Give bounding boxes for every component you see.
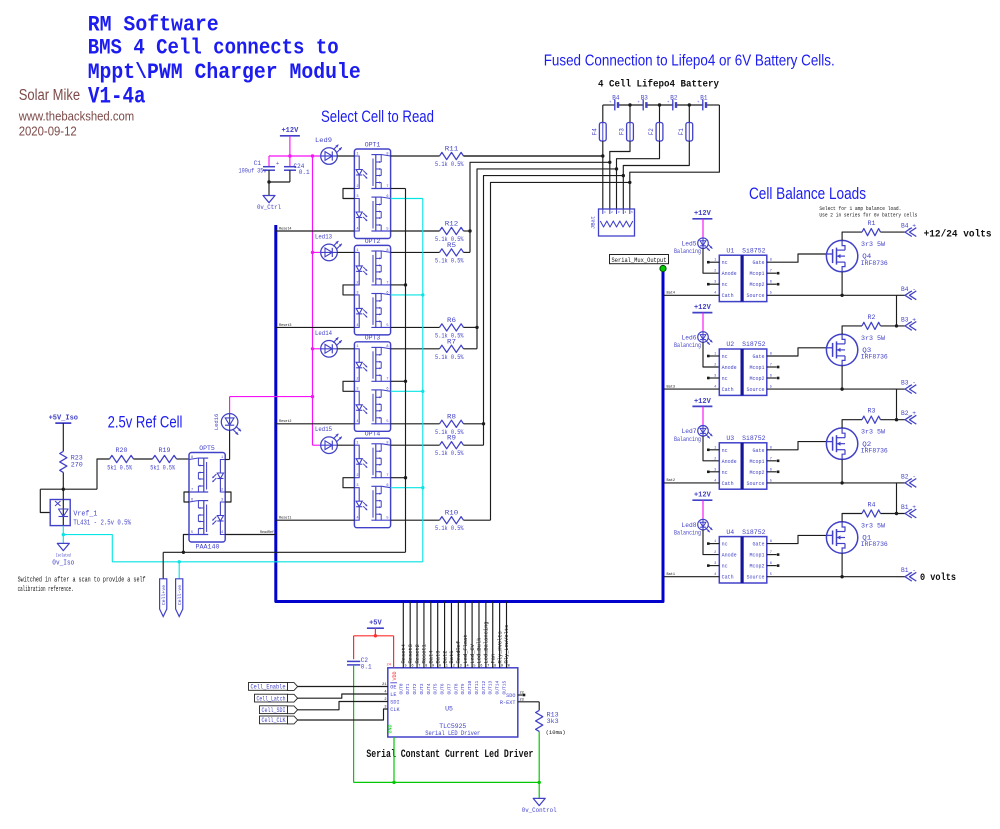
svg-text:2: 2 <box>714 457 716 461</box>
svg-text:Use 2 in series for 6v battery: Use 2 in series for 6v battery cells <box>819 212 917 218</box>
svg-text:+12V: +12V <box>281 127 299 135</box>
svg-text:B4_+: B4_+ <box>901 223 916 230</box>
svg-text:2: 2 <box>714 364 716 368</box>
svg-text:Mppt\PWM Charger Module: Mppt\PWM Charger Module <box>88 60 361 85</box>
svg-text:OUT10: OUT10 <box>467 680 473 694</box>
svg-text:4 Cell Lifepo4 Battery: 4 Cell Lifepo4 Battery <box>598 79 719 91</box>
svg-text:+12V: +12V <box>694 304 712 312</box>
svg-text:4: 4 <box>356 517 358 521</box>
svg-text:Gate: Gate <box>752 542 764 548</box>
svg-text:2: 2 <box>611 211 613 214</box>
svg-text:16: 16 <box>478 664 482 668</box>
svg-text:3: 3 <box>714 281 716 285</box>
svg-text:U1: U1 <box>726 247 734 254</box>
svg-text:nc: nc <box>722 376 728 382</box>
svg-text:8: 8 <box>425 664 427 668</box>
svg-text:Balancing: Balancing <box>674 436 701 443</box>
svg-text:Bat1: Bat1 <box>449 651 455 664</box>
svg-text:Select Cell to Read: Select Cell to Read <box>321 107 434 126</box>
svg-text:Led9: Led9 <box>315 137 332 144</box>
svg-text:OPT4: OPT4 <box>365 431 381 438</box>
svg-text:F3: F3 <box>619 128 626 136</box>
svg-text:2: 2 <box>714 270 716 274</box>
svg-text:IRF8736: IRF8736 <box>861 541 888 548</box>
svg-text:Gate: Gate <box>752 260 764 266</box>
svg-text:6: 6 <box>770 281 772 285</box>
svg-text:nc: nc <box>722 470 728 476</box>
svg-text:F1: F1 <box>678 128 685 136</box>
svg-text:Rly_LowVolts: Rly_LowVolts <box>504 625 510 664</box>
svg-text:Source: Source <box>746 387 764 393</box>
svg-text:R6: R6 <box>447 317 456 324</box>
svg-text:Source: Source <box>746 481 764 487</box>
svg-text:3: 3 <box>221 498 223 502</box>
svg-text:Select for 1 amp balance load.: Select for 1 amp balance load. <box>819 206 901 212</box>
svg-text:5.1k 0.5%: 5.1k 0.5% <box>435 354 464 361</box>
svg-text:18: 18 <box>492 664 496 668</box>
svg-text:OUT6: OUT6 <box>440 683 446 694</box>
svg-text:1: 1 <box>604 211 606 214</box>
svg-text:3: 3 <box>356 484 358 488</box>
svg-text:6: 6 <box>770 562 772 566</box>
svg-text:Serial_Mux_Output: Serial_Mux_Output <box>612 257 667 264</box>
svg-text:5k1 0.5%: 5k1 0.5% <box>150 465 175 472</box>
svg-text:5: 5 <box>405 664 407 668</box>
svg-text:Mcop2: Mcop2 <box>749 564 764 570</box>
svg-text:Mcop2: Mcop2 <box>749 282 764 288</box>
svg-text:Bat2: Bat2 <box>442 651 448 664</box>
svg-text:+12V: +12V <box>694 210 712 218</box>
svg-text:7: 7 <box>770 551 772 555</box>
svg-text:Cath: Cath <box>722 575 734 581</box>
svg-text:V1-4a: V1-4a <box>88 84 146 110</box>
svg-text:0v_Ctrl: 0v_Ctrl <box>257 204 281 211</box>
svg-text:Bat4: Bat4 <box>429 651 435 664</box>
svg-text:3k3: 3k3 <box>547 718 559 725</box>
svg-text:4: 4 <box>221 531 223 535</box>
svg-text:VDD: VDD <box>392 671 398 680</box>
svg-text:Solar Mike: Solar Mike <box>19 87 80 104</box>
svg-text:4: 4 <box>625 211 627 214</box>
svg-text:2: 2 <box>356 185 358 189</box>
svg-text:3: 3 <box>714 562 716 566</box>
svg-text:3: 3 <box>714 375 716 379</box>
svg-text:Anode: Anode <box>722 271 737 277</box>
svg-text:R8: R8 <box>447 413 456 420</box>
svg-text:Bat2: Bat2 <box>667 479 676 483</box>
svg-text:R-EXT: R-EXT <box>500 700 516 706</box>
svg-text:3: 3 <box>714 468 716 472</box>
svg-text:OPT2: OPT2 <box>365 238 381 245</box>
svg-text:5: 5 <box>191 531 193 535</box>
svg-text:1: 1 <box>356 152 358 156</box>
svg-text:Fused Connection to Lifepo4 or: Fused Connection to Lifepo4 or 6V Batter… <box>544 52 835 69</box>
svg-text:R19: R19 <box>159 447 171 454</box>
svg-text:2: 2 <box>356 378 358 382</box>
svg-text:OUT13: OUT13 <box>488 680 494 694</box>
svg-text:0v_Iso: 0v_Iso <box>52 560 74 568</box>
svg-text:Cell+ve: Cell+ve <box>161 585 167 605</box>
svg-text:5: 5 <box>386 420 388 424</box>
svg-text:OUT8: OUT8 <box>453 683 459 694</box>
svg-text:Bat4: Bat4 <box>667 292 676 296</box>
svg-text:9: 9 <box>432 664 434 668</box>
svg-text:Reset3: Reset3 <box>279 324 292 328</box>
svg-text:Isolated: Isolated <box>56 554 71 559</box>
svg-text:6: 6 <box>386 291 388 295</box>
svg-text:OE: OE <box>390 685 396 691</box>
svg-text:Led_CV: Led_CV <box>470 643 476 663</box>
svg-text:1: 1 <box>356 249 358 253</box>
svg-text:100uf 35v: 100uf 35v <box>239 168 267 175</box>
svg-text:1: 1 <box>356 345 358 349</box>
svg-text:3: 3 <box>618 211 620 214</box>
svg-text:C1: C1 <box>254 160 262 167</box>
svg-text:+12/24 volts: +12/24 volts <box>924 229 992 241</box>
svg-text:JBat: JBat <box>590 216 597 229</box>
svg-text:GND: GND <box>388 724 394 733</box>
svg-text:R7: R7 <box>447 338 456 345</box>
svg-text:7: 7 <box>770 364 772 368</box>
svg-text:Reset3: Reset3 <box>408 644 414 663</box>
svg-text:Mcop2: Mcop2 <box>749 470 764 476</box>
svg-text:Led5: Led5 <box>682 241 697 248</box>
svg-text:IRF8736: IRF8736 <box>861 447 888 454</box>
svg-text:3: 3 <box>356 195 358 199</box>
svg-text:B1_-: B1_- <box>901 567 916 574</box>
svg-text:R12: R12 <box>445 221 459 228</box>
svg-text:SDO: SDO <box>506 693 515 699</box>
svg-text:6: 6 <box>770 468 772 472</box>
svg-text:Led8: Led8 <box>682 522 697 529</box>
svg-text:www.thebackshed.com: www.thebackshed.com <box>18 109 134 124</box>
svg-text:0 volts: 0 volts <box>920 572 956 584</box>
svg-text:6: 6 <box>386 195 388 199</box>
svg-text:+12V: +12V <box>694 492 712 500</box>
svg-text:U3: U3 <box>726 435 734 442</box>
svg-text:3r3 5W: 3r3 5W <box>861 241 885 248</box>
svg-text:20: 20 <box>506 664 510 668</box>
svg-text:5.1k 0.5%: 5.1k 0.5% <box>435 525 464 532</box>
svg-text:OUT7: OUT7 <box>446 683 452 694</box>
svg-text:Led7: Led7 <box>682 428 697 435</box>
svg-text:7: 7 <box>418 664 420 668</box>
svg-text:4: 4 <box>356 227 358 231</box>
svg-text:270: 270 <box>71 462 83 469</box>
svg-text:5: 5 <box>386 517 388 521</box>
svg-text:24: 24 <box>386 664 391 668</box>
svg-text:17: 17 <box>485 664 489 668</box>
svg-text:5.1k 0.5%: 5.1k 0.5% <box>435 450 464 457</box>
svg-text:R2: R2 <box>868 314 876 321</box>
svg-text:TL431 - 2.5v 0.5%: TL431 - 2.5v 0.5% <box>73 520 131 528</box>
svg-text:Reset1: Reset1 <box>279 517 292 521</box>
svg-text:RM Software: RM Software <box>88 12 219 37</box>
svg-text:OUT4: OUT4 <box>426 683 432 694</box>
svg-text:Bat3: Bat3 <box>435 651 441 664</box>
svg-text:OUT12: OUT12 <box>481 680 487 694</box>
svg-text:Cath: Cath <box>722 387 734 393</box>
svg-text:Bat1: Bat1 <box>667 573 676 577</box>
svg-text:0v_Control: 0v_Control <box>522 807 557 814</box>
svg-text:2: 2 <box>356 474 358 478</box>
svg-text:B3_-: B3_- <box>901 380 916 387</box>
svg-text:B4: B4 <box>612 95 620 102</box>
svg-text:Rly_HVolts: Rly_HVolts <box>497 631 503 663</box>
svg-text:OUT1: OUT1 <box>405 683 411 694</box>
svg-text:Cell_CLK: Cell_CLK <box>262 717 286 724</box>
svg-text:5.1k 0.5%: 5.1k 0.5% <box>435 257 464 264</box>
svg-text:Led13: Led13 <box>315 233 332 240</box>
svg-text:U2: U2 <box>726 341 734 348</box>
svg-text:OUT5: OUT5 <box>433 683 439 694</box>
svg-text:OPT3: OPT3 <box>365 334 381 341</box>
svg-text:R3: R3 <box>868 408 876 415</box>
svg-text:7: 7 <box>770 270 772 274</box>
svg-text:PAA140: PAA140 <box>196 544 220 551</box>
svg-text:5: 5 <box>386 227 388 231</box>
svg-text:+: + <box>276 160 279 167</box>
svg-text:B2: B2 <box>670 95 678 102</box>
svg-text:Anode: Anode <box>722 365 737 371</box>
svg-text:7: 7 <box>770 457 772 461</box>
svg-text:10: 10 <box>437 664 441 668</box>
svg-text:Mcop1: Mcop1 <box>749 271 764 277</box>
svg-text:OUT0: OUT0 <box>398 683 404 694</box>
svg-text:5.1k 0.5%: 5.1k 0.5% <box>435 161 464 168</box>
svg-text:8: 8 <box>386 442 388 446</box>
svg-text:+12V: +12V <box>694 398 712 406</box>
svg-text:R11: R11 <box>445 146 459 153</box>
svg-text:SDI: SDI <box>390 700 399 706</box>
svg-text:(10ma): (10ma) <box>546 729 566 736</box>
svg-text:6: 6 <box>411 664 413 668</box>
svg-text:Si8752: Si8752 <box>742 341 766 348</box>
svg-text:14: 14 <box>464 664 468 668</box>
svg-text:Mcop1: Mcop1 <box>749 365 764 371</box>
svg-text:+5V_Iso: +5V_Iso <box>49 415 78 423</box>
svg-text:R10: R10 <box>445 510 459 517</box>
svg-text:Anode: Anode <box>722 553 737 559</box>
svg-text:7: 7 <box>386 185 388 189</box>
svg-text:OPT1: OPT1 <box>365 142 381 149</box>
svg-text:Si8752: Si8752 <box>742 529 766 536</box>
svg-text:0.1: 0.1 <box>361 664 372 671</box>
svg-text:2: 2 <box>356 281 358 285</box>
svg-text:Cell_Latch: Cell_Latch <box>257 695 286 702</box>
svg-text:F2: F2 <box>648 128 655 136</box>
svg-text:3r3 5W: 3r3 5W <box>861 429 885 436</box>
svg-text:Gate: Gate <box>752 354 764 360</box>
svg-text:Reset1: Reset1 <box>422 644 428 663</box>
svg-text:Balancing: Balancing <box>674 342 701 349</box>
svg-text:Vref_1: Vref_1 <box>73 511 97 519</box>
svg-text:B2_-: B2_- <box>901 473 916 480</box>
svg-text:R9: R9 <box>447 435 456 442</box>
svg-text:Balancing: Balancing <box>674 248 701 255</box>
svg-text:1: 1 <box>221 456 223 460</box>
svg-text:B2_+: B2_+ <box>901 410 916 417</box>
svg-text:Led15: Led15 <box>315 426 332 433</box>
svg-text:Reset2: Reset2 <box>279 420 292 424</box>
svg-text:2.5v Ref Cell: 2.5v Ref Cell <box>108 413 183 432</box>
svg-text:Si8752: Si8752 <box>742 247 766 254</box>
svg-text:8: 8 <box>191 456 193 460</box>
svg-text:Reset4: Reset4 <box>401 644 407 663</box>
svg-text:Cell_Enable: Cell_Enable <box>251 684 286 691</box>
svg-text:5k1 0.5%: 5k1 0.5% <box>107 465 132 472</box>
svg-text:2020-09-12: 2020-09-12 <box>19 124 77 139</box>
svg-text:U4: U4 <box>726 529 734 536</box>
svg-text:Balancing: Balancing <box>674 530 701 537</box>
svg-text:3: 3 <box>356 388 358 392</box>
svg-text:4: 4 <box>356 420 358 424</box>
svg-text:Si8752: Si8752 <box>742 435 766 442</box>
svg-text:15: 15 <box>471 664 475 668</box>
svg-text:Led6: Led6 <box>682 334 697 341</box>
svg-text:7: 7 <box>386 474 388 478</box>
svg-text:6: 6 <box>191 498 193 502</box>
svg-text:Cell_SDI: Cell_SDI <box>262 707 286 714</box>
svg-text:7: 7 <box>386 378 388 382</box>
svg-text:OUT9: OUT9 <box>460 683 466 694</box>
svg-text:ReadRef: ReadRef <box>260 530 274 535</box>
svg-text:Led_Balancing: Led_Balancing <box>484 621 490 663</box>
svg-text:F4: F4 <box>591 128 598 136</box>
svg-text:Led16: Led16 <box>213 414 220 431</box>
svg-text:B3: B3 <box>641 95 649 102</box>
svg-text:Reset4: Reset4 <box>279 227 292 231</box>
svg-text:B1_+: B1_+ <box>901 504 916 511</box>
svg-text:0.1: 0.1 <box>299 169 310 176</box>
svg-text:Anode: Anode <box>722 459 737 465</box>
svg-text:calibration reference.: calibration reference. <box>18 586 74 594</box>
svg-text:2: 2 <box>714 551 716 555</box>
svg-text:Serial LED Driver: Serial LED Driver <box>425 730 480 738</box>
svg-text:BMS 4 Cell connects to: BMS 4 Cell connects to <box>88 35 339 60</box>
svg-text:7: 7 <box>386 281 388 285</box>
svg-text:1: 1 <box>714 259 716 263</box>
svg-text:B4_-: B4_- <box>901 286 916 293</box>
svg-text:1: 1 <box>714 353 716 357</box>
svg-text:1: 1 <box>356 442 358 446</box>
svg-text:3r3 5W: 3r3 5W <box>861 335 885 342</box>
svg-text:12: 12 <box>451 664 455 668</box>
svg-text:R5: R5 <box>447 242 456 249</box>
svg-text:Reset2: Reset2 <box>415 644 421 663</box>
svg-text:B3_+: B3_+ <box>901 316 916 323</box>
svg-text:LE: LE <box>390 692 396 698</box>
svg-text:OUT14: OUT14 <box>495 680 501 694</box>
svg-text:6: 6 <box>386 388 388 392</box>
svg-text:Led_Float: Led_Float <box>463 634 469 663</box>
svg-text:OUT3: OUT3 <box>419 683 425 694</box>
svg-text:Cath: Cath <box>722 293 734 299</box>
svg-text:Source: Source <box>746 293 764 299</box>
svg-text:1: 1 <box>714 540 716 544</box>
svg-text:7: 7 <box>191 488 193 492</box>
svg-text:Source: Source <box>746 575 764 581</box>
svg-text:ReadRef: ReadRef <box>456 641 462 664</box>
svg-text:B1: B1 <box>700 95 708 102</box>
svg-text:U5: U5 <box>445 706 453 713</box>
svg-text:Bat3: Bat3 <box>667 385 676 389</box>
svg-text:13: 13 <box>457 664 461 668</box>
svg-text:CLK: CLK <box>390 707 400 713</box>
svg-text:IRF8736: IRF8736 <box>861 260 888 267</box>
svg-text:5: 5 <box>631 211 633 214</box>
svg-text:IRF8736: IRF8736 <box>861 354 888 361</box>
svg-text:8: 8 <box>386 152 388 156</box>
svg-text:2: 2 <box>221 488 223 492</box>
svg-text:4: 4 <box>356 324 358 328</box>
svg-text:R1: R1 <box>868 220 876 227</box>
svg-text:OPT5: OPT5 <box>199 445 215 452</box>
svg-text:+5V: +5V <box>369 620 382 628</box>
svg-text:1: 1 <box>714 446 716 450</box>
svg-text:Switched in after a scan to pr: Switched in after a scan to provide a se… <box>18 576 146 584</box>
svg-text:OUT2: OUT2 <box>412 683 418 694</box>
svg-text:nc: nc <box>722 448 728 454</box>
svg-text:6: 6 <box>770 375 772 379</box>
svg-text:Led_Bulk: Led_Bulk <box>477 638 483 664</box>
svg-text:8: 8 <box>386 249 388 253</box>
svg-text:R4: R4 <box>868 502 876 509</box>
svg-text:Gate: Gate <box>752 448 764 454</box>
svg-text:R23: R23 <box>71 455 83 462</box>
svg-text:Mcop1: Mcop1 <box>749 553 764 559</box>
svg-text:nc: nc <box>722 354 728 360</box>
svg-text:nc: nc <box>722 260 728 266</box>
svg-text:11: 11 <box>444 664 448 668</box>
svg-text:Fan: Fan <box>490 654 496 664</box>
svg-text:Cell-ve: Cell-ve <box>177 585 183 605</box>
svg-text:Serial Constant Current Led Dr: Serial Constant Current Led Driver <box>366 749 533 761</box>
svg-text:Cell Balance Loads: Cell Balance Loads <box>749 184 866 203</box>
svg-text:nc: nc <box>722 542 728 548</box>
svg-text:19: 19 <box>499 664 503 668</box>
svg-text:3: 3 <box>356 291 358 295</box>
svg-text:nc: nc <box>722 564 728 570</box>
svg-text:OUT11: OUT11 <box>474 680 480 694</box>
svg-text:Mcop2: Mcop2 <box>749 376 764 382</box>
svg-text:R20: R20 <box>116 447 128 454</box>
svg-text:Led14: Led14 <box>315 330 332 337</box>
svg-text:nc: nc <box>722 282 728 288</box>
svg-text:8: 8 <box>386 345 388 349</box>
svg-text:5: 5 <box>386 324 388 328</box>
svg-text:6: 6 <box>386 484 388 488</box>
svg-text:3r3 5W: 3r3 5W <box>861 523 885 530</box>
svg-text:Cath: Cath <box>722 481 734 487</box>
svg-text:Mcop1: Mcop1 <box>749 459 764 465</box>
